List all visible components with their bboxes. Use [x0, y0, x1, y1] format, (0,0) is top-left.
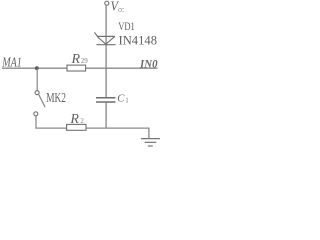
svg-text:29: 29: [81, 57, 89, 65]
svg-text:C: C: [117, 94, 125, 105]
svg-text:IN4148: IN4148: [119, 34, 158, 48]
svg-text:IN0: IN0: [139, 59, 158, 71]
svg-text:2: 2: [80, 118, 84, 125]
svg-text:1: 1: [125, 96, 129, 104]
svg-text:VD1: VD1: [118, 21, 135, 33]
svg-text:MA1: MA1: [1, 56, 21, 71]
svg-text:CC: CC: [118, 7, 124, 14]
svg-text:R: R: [69, 112, 79, 127]
svg-text:MK2: MK2: [46, 91, 66, 106]
svg-text:R: R: [71, 52, 81, 67]
